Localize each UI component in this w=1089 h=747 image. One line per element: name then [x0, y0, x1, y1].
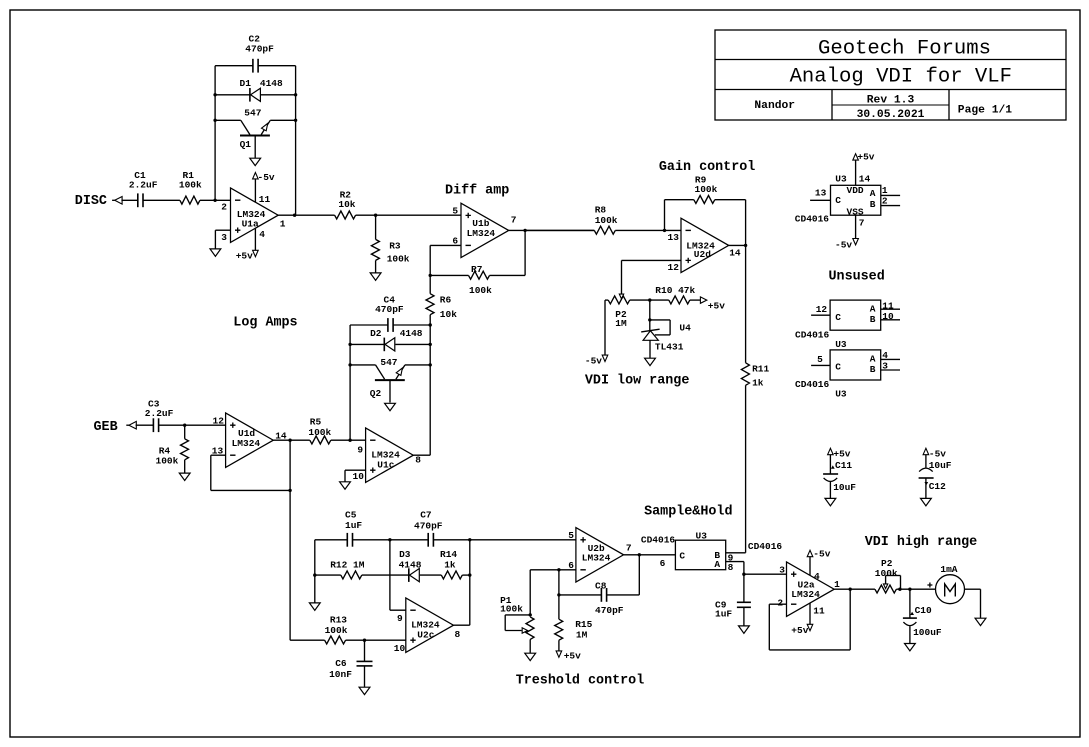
- svg-text:CD4016: CD4016: [795, 379, 830, 390]
- wire pin10: [881, 319, 900, 321]
- wire R15 bottom lead: [558, 640, 560, 651]
- S&H pin labels: [660, 541, 783, 573]
- diode D3 4148: [399, 549, 422, 582]
- wire U2c pin9 vertical: [389, 540, 391, 610]
- op-amp U2a LM324: [787, 562, 835, 616]
- svg-text:10: 10: [394, 643, 406, 654]
- wire P2 to meter: [896, 588, 935, 590]
- op-amp U1c LM324: [366, 428, 414, 482]
- wire GEB to C3: [136, 424, 154, 426]
- wire C4 row left: [350, 324, 388, 326]
- svg-text:1k: 1k: [444, 560, 456, 571]
- svg-text:Geotech Forums: Geotech Forums: [818, 37, 991, 60]
- transistor Q2 BC547: [370, 357, 405, 403]
- supply -5v U1a pin11: [253, 172, 275, 183]
- ground C11: [825, 498, 836, 505]
- wire U1c output: [413, 454, 430, 456]
- junction Q2 right: [429, 363, 432, 366]
- svg-text:GEB: GEB: [94, 420, 118, 435]
- svg-text:C10: C10: [915, 605, 932, 616]
- title block box: [715, 30, 1066, 120]
- svg-text:DISC: DISC: [75, 194, 107, 209]
- wire R2 to U1b pin5: [356, 214, 461, 216]
- U2a pin labels: [777, 565, 840, 617]
- wire pin3: [881, 369, 900, 371]
- svg-text:4: 4: [259, 229, 265, 240]
- resistor R10 47k: [655, 285, 695, 304]
- svg-text:10uF: 10uF: [929, 460, 952, 471]
- svg-text:12: 12: [668, 262, 680, 273]
- wire R3 top lead: [375, 215, 377, 239]
- svg-text:7: 7: [626, 542, 632, 553]
- wire U4 cathode: [649, 300, 651, 330]
- wire U1a pin3 to ground: [215, 229, 230, 231]
- svg-text:100k: 100k: [469, 285, 492, 296]
- wire pin11: [881, 308, 900, 310]
- analog switch CD4016 unused A: [795, 300, 881, 350]
- svg-text:+5v: +5v: [791, 625, 808, 636]
- potentiometer P2 1M: [605, 296, 630, 355]
- ground Q2: [385, 403, 396, 410]
- junction U1d feedback top: [288, 439, 291, 442]
- wire U1d feedback vertical: [289, 440, 291, 490]
- svg-text:Q2: Q2: [370, 388, 382, 399]
- op-amp U2c LM324: [406, 598, 454, 652]
- wire U2b pin6 net: [530, 569, 576, 571]
- wire U1c pin10 to ground: [345, 469, 366, 471]
- junction U4 ref: [648, 318, 651, 321]
- svg-text:R3: R3: [389, 240, 401, 251]
- svg-text:VDD: VDD: [847, 185, 864, 196]
- svg-text:CD4016: CD4016: [748, 541, 783, 552]
- capacitor C6 10nF: [329, 658, 372, 680]
- wire S&H pin B to R11 vertical: [726, 552, 746, 554]
- unused A pin labels: [816, 300, 894, 321]
- analog switch CD4016 unused B: [795, 350, 881, 400]
- supply +5v VDD: [853, 152, 875, 163]
- svg-text:6: 6: [660, 558, 666, 569]
- wire C3 to U1d pin12: [159, 424, 226, 426]
- svg-text:B: B: [870, 199, 876, 210]
- wire R3 bottom lead: [375, 260, 377, 272]
- ground U1a pin3: [210, 249, 221, 256]
- wire R11 vertical lower: [745, 385, 747, 553]
- svg-text:R7: R7: [471, 264, 483, 275]
- resistor R15 1M: [555, 619, 593, 640]
- wire VDD stem: [855, 160, 857, 185]
- svg-text:+5v: +5v: [857, 152, 874, 163]
- junction U1d feedback corner: [288, 489, 291, 492]
- svg-text:470pF: 470pF: [414, 521, 443, 532]
- wire R11 vertical upper: [745, 245, 747, 362]
- svg-text:13: 13: [815, 188, 827, 199]
- svg-text:C5: C5: [345, 510, 357, 521]
- svg-text:3: 3: [221, 232, 227, 243]
- node DISC input: [75, 194, 122, 209]
- junction C5/C7/U2c pin9: [388, 538, 391, 541]
- resistor R8 100k: [594, 205, 618, 235]
- U2c pin labels: [394, 613, 461, 654]
- svg-text:C: C: [835, 362, 841, 373]
- junction C1/R1/U1a-/feedback: [213, 199, 216, 202]
- wire R6 to C4 row: [429, 315, 431, 325]
- wire pin2: [881, 205, 900, 207]
- wire A to U2a pin3: [744, 573, 787, 575]
- junction U1b out: [523, 229, 526, 232]
- svg-text:14: 14: [729, 248, 741, 259]
- svg-text:Diff amp: Diff amp: [445, 184, 509, 199]
- junction P2/R10/U4: [648, 298, 651, 301]
- analog switch U3 CD4016 (sample/hold): [641, 531, 726, 571]
- capacitor C10 100uF: [903, 589, 942, 643]
- transistor Q1 BC547: [240, 107, 271, 157]
- wire R8 left: [525, 229, 594, 231]
- wire R10 to +5v arrow: [690, 299, 701, 301]
- wire U2a feedback: [769, 603, 786, 605]
- supply +5v C11: [828, 448, 851, 459]
- svg-text:CD4016: CD4016: [795, 330, 830, 341]
- svg-text:Q1: Q1: [240, 139, 252, 150]
- wire C2 row right: [258, 65, 296, 67]
- svg-text:D3: D3: [399, 549, 411, 560]
- svg-text:4: 4: [814, 571, 820, 582]
- svg-text:U3: U3: [835, 389, 847, 400]
- resistor R7 100k: [469, 264, 493, 296]
- wire R7 row right: [490, 274, 526, 276]
- wire C4 row right: [393, 324, 430, 326]
- capacitor C11 10uF: [823, 455, 856, 498]
- svg-text:-5v: -5v: [835, 240, 852, 251]
- wire R4 top lead: [184, 425, 186, 439]
- svg-text:4148: 4148: [400, 328, 423, 339]
- svg-text:100k: 100k: [156, 455, 179, 466]
- junction R14/C7 vertical: [468, 573, 471, 576]
- svg-text:9: 9: [357, 444, 363, 455]
- wire Q1 row left: [215, 119, 241, 121]
- wire log2 right vertical: [429, 325, 431, 455]
- chip pin labels: [815, 185, 888, 228]
- svg-text:100k: 100k: [308, 427, 331, 438]
- svg-text:8: 8: [415, 455, 421, 466]
- analog switch U3 CD4016 (power): [795, 174, 881, 225]
- svg-text:-5v: -5v: [929, 448, 946, 459]
- junction R5/U1c pin9/log2: [348, 439, 351, 442]
- supply -5v C12: [923, 448, 946, 459]
- svg-text:R6: R6: [440, 294, 452, 305]
- wire U2d output: [729, 244, 746, 246]
- wire U1d pin13 feedback: [211, 454, 226, 456]
- svg-text:4148: 4148: [260, 78, 283, 89]
- svg-text:2.2uF: 2.2uF: [129, 180, 158, 191]
- svg-text:Treshold control: Treshold control: [516, 673, 645, 688]
- wire D1 row left: [215, 94, 250, 96]
- svg-text:1: 1: [280, 218, 286, 229]
- capacitor C2 470pF: [245, 34, 274, 73]
- svg-text:Log Amps: Log Amps: [233, 316, 297, 331]
- wire feedback left vertical: [214, 66, 216, 201]
- wire pin1: [881, 194, 900, 196]
- svg-text:2.2uF: 2.2uF: [145, 408, 174, 419]
- wire R5 to U1c pin9: [331, 439, 366, 441]
- svg-text:1M: 1M: [615, 318, 627, 329]
- supply +5v U1a pin4: [236, 250, 259, 261]
- svg-text:3: 3: [779, 565, 785, 576]
- shunt regulator U4 TL431: [641, 320, 691, 358]
- svg-text:A: A: [714, 559, 720, 570]
- op-amp U1d LM324: [226, 413, 274, 467]
- svg-text:A: A: [870, 303, 876, 314]
- svg-text:2: 2: [777, 598, 783, 609]
- U2b pin labels: [568, 530, 632, 571]
- wiper arrow P2-1M: [619, 294, 623, 299]
- resistor R3 100k: [371, 239, 409, 264]
- svg-text:100k: 100k: [325, 625, 348, 636]
- junction Q1 left: [213, 119, 216, 122]
- junction R13/C6: [363, 639, 366, 642]
- op-amp U1a LM324: [231, 188, 279, 242]
- svg-text:4148: 4148: [399, 560, 422, 571]
- svg-text:1M: 1M: [576, 629, 588, 640]
- wire C6 bottom lead: [364, 666, 366, 687]
- wire vertical to R13: [289, 490, 291, 640]
- svg-text:-5v: -5v: [813, 549, 830, 560]
- wire Q1 row right: [270, 119, 295, 121]
- svg-text:13: 13: [668, 232, 680, 243]
- ground C10: [905, 644, 916, 651]
- wire Q2 row right: [405, 364, 430, 366]
- svg-text:9: 9: [397, 613, 403, 624]
- svg-text:LM324: LM324: [582, 552, 611, 563]
- junction P1 top: [529, 613, 532, 616]
- resistor R4 100k: [156, 439, 189, 467]
- junction D1 right: [294, 93, 297, 96]
- svg-text:Gain control: Gain control: [659, 160, 755, 175]
- svg-text:100k: 100k: [500, 604, 523, 615]
- svg-text:11: 11: [813, 606, 825, 617]
- svg-text:+5v: +5v: [708, 301, 725, 312]
- wire U1a pin4 stem: [254, 229, 256, 251]
- wire log2 left vertical: [349, 325, 351, 440]
- svg-text:C8: C8: [595, 581, 607, 592]
- wire U1d output row: [273, 439, 310, 441]
- wire U1b output row: [509, 229, 595, 231]
- svg-text:12: 12: [816, 304, 828, 315]
- junction U1a out feedback: [293, 214, 296, 217]
- svg-text:6: 6: [568, 560, 574, 571]
- resistor R1 100k: [179, 170, 202, 204]
- resistor R11 1k: [741, 363, 769, 389]
- U2d pin labels: [668, 232, 741, 273]
- junction C10 tap: [908, 588, 911, 591]
- svg-text:5: 5: [452, 206, 458, 217]
- svg-text:A: A: [870, 188, 876, 199]
- wire Q2 row left: [350, 364, 375, 366]
- ground meter: [975, 618, 986, 625]
- ground R4: [179, 473, 190, 480]
- wire R9 right vertical: [715, 199, 746, 201]
- wire R4 bottom lead: [184, 460, 186, 473]
- ground P1: [525, 653, 536, 660]
- wire C5 to C7: [353, 539, 429, 541]
- svg-text:1uF: 1uF: [715, 609, 732, 620]
- junction P2 right: [898, 588, 901, 591]
- wire C7 to U2b pin5: [433, 539, 576, 541]
- supply -5v P2: [585, 355, 608, 367]
- junction C4/R6: [429, 323, 432, 326]
- wire C6 top lead: [364, 640, 366, 661]
- wire U2a output: [834, 588, 875, 590]
- svg-text:C11: C11: [835, 460, 852, 471]
- junction C7/R14 vertical: [468, 538, 471, 541]
- svg-text:U1c: U1c: [377, 460, 394, 471]
- svg-text:8: 8: [728, 562, 734, 573]
- resistor R9 100k: [694, 175, 718, 204]
- junction U2a out: [849, 588, 852, 591]
- svg-text:R12 1M: R12 1M: [330, 560, 365, 571]
- meter M1 1mA: [927, 564, 964, 604]
- ground U1c pin10: [340, 482, 351, 489]
- svg-text:5: 5: [817, 354, 823, 365]
- wire C9 bottom lead: [743, 607, 745, 625]
- svg-text:CD4016: CD4016: [795, 213, 830, 224]
- wire R7 row left: [430, 274, 468, 276]
- capacitor C4 470pF: [375, 294, 404, 332]
- wire R9 left vertical: [664, 200, 666, 231]
- svg-text:C: C: [835, 195, 841, 206]
- junction R7/R6/U1b pin6: [429, 274, 432, 277]
- svg-text:U4: U4: [679, 323, 691, 334]
- svg-text:30.05.2021: 30.05.2021: [857, 109, 925, 121]
- wire U1b pin6: [430, 244, 461, 246]
- svg-text:Sample&Hold: Sample&Hold: [644, 505, 732, 520]
- capacitor C3 2.2uF: [145, 398, 174, 432]
- wire pin13: [810, 199, 830, 201]
- svg-text:7: 7: [859, 217, 865, 228]
- resistor R5 100k: [308, 417, 331, 444]
- svg-text:470pF: 470pF: [375, 304, 404, 315]
- potentiometer P2 100k (rheostat): [875, 558, 901, 593]
- svg-text:U3: U3: [835, 174, 847, 185]
- svg-text:100k: 100k: [875, 568, 898, 579]
- junction U2b out/C8: [638, 553, 641, 556]
- wire U2d pin12 to wiper: [622, 259, 682, 261]
- wire U1a output row: [278, 214, 334, 216]
- wire U1a pin11 stem: [254, 179, 256, 202]
- svg-text:A: A: [870, 354, 876, 365]
- wire U2b output: [624, 554, 676, 556]
- wire P2 to R10: [630, 299, 669, 301]
- svg-text:100k: 100k: [179, 180, 202, 191]
- svg-text:+5v: +5v: [236, 251, 253, 262]
- svg-text:C6: C6: [335, 658, 347, 669]
- svg-text:8: 8: [455, 629, 461, 640]
- svg-text:7: 7: [511, 214, 517, 225]
- capacitor C12 10uF: [919, 455, 952, 498]
- supply -5v VSS: [835, 239, 858, 251]
- supply +5v U2a: [791, 624, 813, 636]
- wire meter to ground: [965, 588, 981, 590]
- capacitor C5 1uF: [345, 510, 362, 547]
- wire DISC to C1: [121, 199, 137, 201]
- svg-text:547: 547: [244, 107, 261, 118]
- svg-text:C: C: [835, 312, 841, 323]
- svg-text:14: 14: [859, 174, 871, 185]
- wire D2 row left: [350, 343, 384, 345]
- potentiometer P1 100k: [500, 595, 534, 653]
- svg-text:LM324: LM324: [467, 228, 496, 239]
- svg-text:R10 47k: R10 47k: [655, 285, 695, 296]
- svg-text:Unsused: Unsused: [829, 269, 885, 284]
- svg-text:12: 12: [213, 416, 225, 427]
- svg-text:10k: 10k: [338, 199, 355, 210]
- svg-text:R13: R13: [330, 615, 347, 626]
- ground C9: [739, 626, 750, 633]
- svg-text:10k: 10k: [440, 309, 457, 320]
- junction C8/R15: [557, 593, 560, 596]
- diode D1 4148: [240, 78, 284, 101]
- op-amp U2d LM324: [681, 218, 729, 272]
- junction U2b pin6: [557, 568, 560, 571]
- junction R8/R9/U2d pin13: [663, 229, 666, 232]
- svg-text:2: 2: [221, 202, 227, 213]
- node GEB input: [94, 420, 137, 435]
- wire pin4: [881, 358, 900, 360]
- wire R12 left lead: [315, 574, 341, 576]
- supply -5v U2a: [807, 549, 831, 560]
- wire C9 top lead: [743, 574, 745, 602]
- ground U4: [645, 358, 656, 365]
- resistor R12 1M: [330, 560, 365, 579]
- svg-text:VDI high range: VDI high range: [865, 535, 978, 550]
- wire D3 to R14: [420, 574, 442, 576]
- svg-text:470pF: 470pF: [595, 605, 624, 616]
- svg-text:11: 11: [259, 194, 271, 205]
- junction R12 left: [313, 573, 316, 576]
- svg-text:R14: R14: [440, 549, 457, 560]
- svg-text:+5v: +5v: [564, 650, 581, 661]
- svg-text:100k: 100k: [595, 215, 618, 226]
- wire R13 to U2c pin10: [346, 639, 406, 641]
- svg-text:+5v: +5v: [833, 448, 850, 459]
- svg-text:-5v: -5v: [585, 356, 602, 367]
- svg-text:10: 10: [353, 471, 365, 482]
- svg-text:Analog VDI for VLF: Analog VDI for VLF: [790, 65, 1012, 88]
- wire C5 row left corner: [315, 539, 348, 541]
- U1d pin labels: [212, 416, 287, 457]
- resistor R2 10k: [335, 190, 356, 220]
- svg-text:VDI low range: VDI low range: [585, 374, 689, 389]
- resistor R14 1k: [440, 549, 462, 579]
- wire U2a pin11 stem: [809, 603, 811, 624]
- wire D2 row right: [395, 343, 430, 345]
- unused B pin labels: [817, 350, 888, 371]
- svg-text:547: 547: [380, 357, 397, 368]
- svg-text:C7: C7: [420, 510, 432, 521]
- diode D2 4148: [370, 328, 423, 351]
- svg-text:C: C: [679, 550, 685, 561]
- svg-text:100k: 100k: [387, 253, 410, 264]
- svg-text:U2d: U2d: [694, 249, 711, 260]
- wire R8 to U2d pin13: [615, 229, 681, 231]
- wire R12 ground branch: [314, 575, 316, 603]
- wire U2a pin4 stem: [809, 557, 811, 576]
- svg-text:5: 5: [568, 530, 574, 541]
- wire R1 to U1a pin2: [200, 199, 231, 201]
- U1a pin labels: [221, 194, 285, 243]
- wire C2 row left: [215, 65, 253, 67]
- svg-text:LM324: LM324: [232, 438, 261, 449]
- supply +5v R15: [556, 650, 581, 661]
